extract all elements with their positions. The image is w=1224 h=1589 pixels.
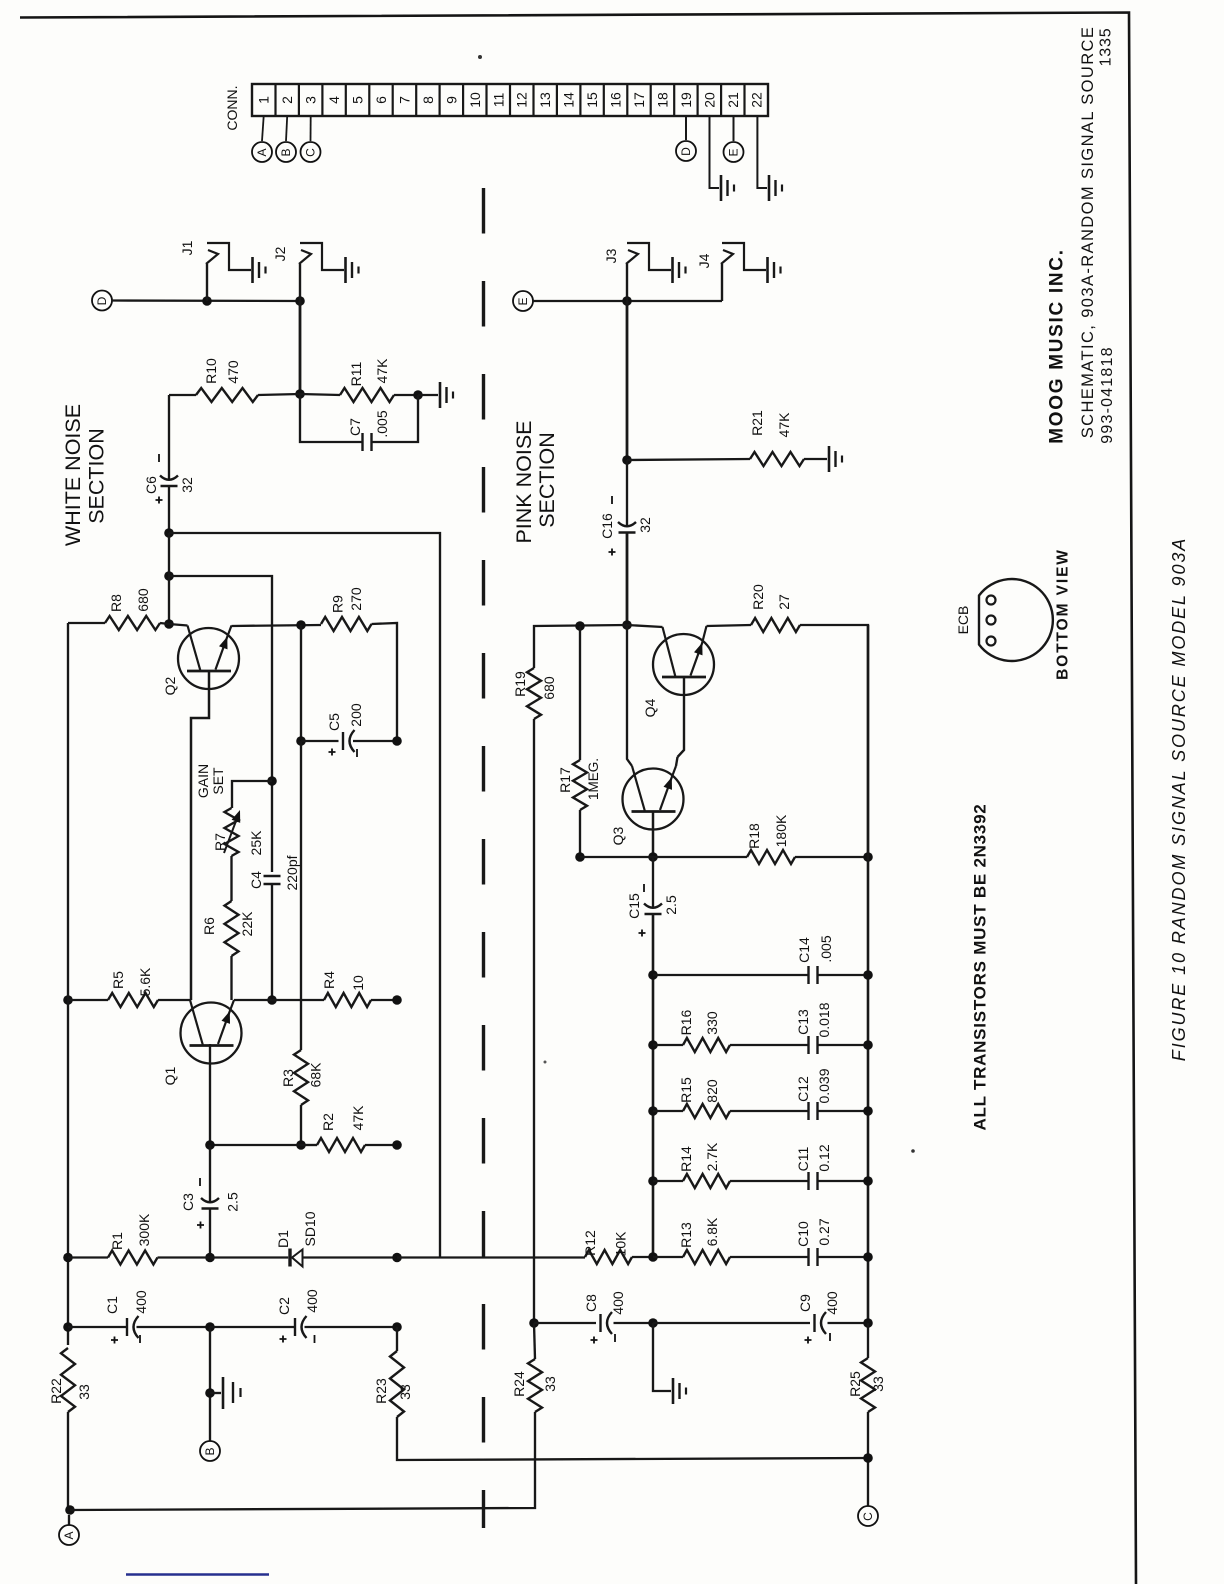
- svg-text:33: 33: [870, 1376, 886, 1392]
- svg-text:C: C: [304, 148, 318, 157]
- resistor R5 5.6K: [63, 995, 73, 1005]
- svg-text:C1: C1: [104, 1296, 120, 1314]
- svg-text:400: 400: [610, 1291, 626, 1315]
- ground on C8/C9 row: [653, 1323, 671, 1391]
- node A and bottom rail: [65, 1505, 75, 1515]
- svg-text:J2: J2: [272, 246, 288, 261]
- svg-text:10: 10: [467, 92, 483, 108]
- svg-text:33: 33: [397, 1384, 413, 1400]
- svg-text:C2: C2: [276, 1297, 292, 1315]
- svg-text:10K: 10K: [613, 1231, 629, 1257]
- svg-text:0.27: 0.27: [816, 1218, 832, 1245]
- wire Q4 base to Q3 emitter: [678, 677, 685, 757]
- svg-text:ALL TRANSISTORS MUST BE 2N3392: ALL TRANSISTORS MUST BE 2N3392: [971, 804, 990, 1131]
- stray specks: [478, 55, 482, 59]
- wire Q1 emitter row to R4: [234, 999, 324, 1001]
- resistor R19 680: [527, 668, 541, 719]
- svg-text:400: 400: [824, 1291, 840, 1315]
- feedback wire from C6 node to bottom rail: [169, 533, 440, 1258]
- resistor R8 680: [68, 622, 105, 624]
- svg-text:3: 3: [303, 96, 319, 104]
- svg-text:47K: 47K: [776, 412, 792, 438]
- svg-text:SET: SET: [210, 767, 226, 795]
- svg-text:33: 33: [542, 1376, 558, 1392]
- resistor R20 27: [707, 625, 752, 626]
- svg-text:GAIN: GAIN: [195, 764, 211, 798]
- svg-text:47K: 47K: [374, 358, 390, 384]
- supply row continues to pink section: [397, 1256, 585, 1258]
- svg-text:R7: R7: [212, 833, 228, 851]
- svg-text:13: 13: [537, 92, 553, 108]
- svg-text:J3: J3: [603, 248, 619, 263]
- svg-text:E: E: [727, 148, 741, 156]
- transistor Q4: [627, 625, 663, 627]
- svg-text:7: 7: [396, 96, 412, 104]
- ground after R11: [418, 394, 438, 396]
- resistor R21 47K: [627, 459, 750, 460]
- resistor R10 470: [169, 394, 196, 396]
- node E (pink noise output bus): [513, 291, 533, 311]
- svg-text:R16: R16: [678, 1009, 694, 1035]
- right rail of pink ladder: [867, 625, 870, 1323]
- resistor R16 330: [648, 1040, 658, 1050]
- capacitor C13 0.018: [807, 1036, 809, 1054]
- svg-text:MOOG MUSIC INC.: MOOG MUSIC INC.: [1047, 248, 1068, 443]
- svg-text:20: 20: [701, 92, 717, 108]
- resistor R6 22K: [230, 856, 232, 901]
- svg-text:C11: C11: [795, 1146, 811, 1171]
- svg-text:R13: R13: [678, 1222, 694, 1248]
- svg-text:CONN.: CONN.: [224, 85, 240, 130]
- resistor R13 6.8K: [653, 1256, 683, 1258]
- wire C6 node to gain-set branch: [164, 571, 174, 581]
- E bus down to R21 node: [626, 301, 629, 460]
- svg-text:R4: R4: [321, 971, 337, 989]
- resistor R23 33: [396, 1327, 398, 1351]
- svg-text:Q3: Q3: [610, 826, 626, 845]
- node B: [200, 1441, 220, 1461]
- capacitor C1 400 (electrolytic): [63, 1322, 73, 1332]
- svg-text:18: 18: [654, 92, 670, 108]
- capacitor C9 400 (electrolytic): [653, 1322, 810, 1324]
- svg-text:6: 6: [373, 96, 389, 104]
- connector terminal strip CONN 1-22: [252, 84, 768, 116]
- ground at pin 20: [710, 116, 720, 188]
- svg-text:Q4: Q4: [642, 698, 658, 717]
- svg-text:5.6K: 5.6K: [137, 967, 153, 996]
- transistor Q1: [190, 999, 191, 1002]
- svg-text:C9: C9: [797, 1294, 813, 1312]
- svg-text:15: 15: [584, 92, 600, 108]
- svg-text:R18: R18: [746, 823, 762, 849]
- svg-text:400: 400: [304, 1289, 320, 1313]
- svg-text:SECTION: SECTION: [85, 428, 109, 524]
- transistor bottom view diagram: [979, 579, 1053, 661]
- svg-text:4: 4: [326, 96, 342, 104]
- resistor R22 33: [61, 1348, 75, 1412]
- svg-text:9: 9: [443, 96, 459, 104]
- resistor R4 10: [324, 993, 371, 1007]
- svg-text:R14: R14: [678, 1146, 694, 1172]
- wire Q2 emitter to R9 node: [232, 625, 322, 626]
- resistor R24 33: [534, 1323, 535, 1359]
- svg-text:BOTTOM VIEW: BOTTOM VIEW: [1055, 548, 1072, 680]
- transistor Q2: [169, 624, 188, 626]
- svg-text:300K: 300K: [136, 1213, 152, 1246]
- svg-text:SECTION: SECTION: [535, 432, 559, 528]
- capacitor C5 200 (electrolytic): [301, 740, 339, 742]
- svg-text:J4: J4: [696, 253, 712, 268]
- svg-text:27: 27: [776, 594, 792, 610]
- svg-text:R12: R12: [582, 1230, 598, 1256]
- svg-text:470: 470: [225, 360, 241, 384]
- svg-text:R11: R11: [348, 361, 364, 386]
- svg-text:R9: R9: [330, 595, 346, 613]
- svg-text:E: E: [516, 297, 530, 305]
- svg-text:21: 21: [725, 92, 741, 108]
- svg-text:R20: R20: [750, 584, 766, 610]
- svg-text:ECB: ECB: [955, 606, 971, 635]
- svg-text:R1: R1: [109, 1232, 125, 1250]
- diode D1 SD10: [210, 1256, 288, 1258]
- pink supply node: [622, 620, 632, 630]
- svg-text:R2: R2: [320, 1113, 336, 1131]
- resistor R11 47K: [300, 394, 340, 395]
- svg-text:R8: R8: [108, 594, 124, 612]
- jack J4: [721, 264, 723, 301]
- svg-text:680: 680: [135, 588, 151, 612]
- svg-text:Q2: Q2: [162, 676, 178, 695]
- capacitor C8 400 (electrolytic): [529, 1318, 539, 1328]
- capacitor C11 0.12: [807, 1172, 809, 1190]
- svg-text:68K: 68K: [308, 1062, 324, 1088]
- svg-text:180K: 180K: [773, 814, 789, 847]
- svg-text:C16: C16: [599, 513, 615, 539]
- svg-text:.005: .005: [818, 935, 834, 962]
- ground on B branch: [209, 1327, 211, 1441]
- jack J1: [206, 264, 208, 301]
- capacitor C3 2.5 (electrolytic): [209, 1145, 211, 1203]
- svg-text:D: D: [679, 147, 693, 156]
- svg-text:32: 32: [637, 517, 653, 533]
- svg-text:270: 270: [348, 587, 364, 611]
- svg-text:C7: C7: [347, 418, 363, 436]
- svg-text:11: 11: [490, 93, 506, 108]
- svg-text:2.5: 2.5: [225, 1192, 241, 1212]
- resistor R2 47K: [301, 1144, 317, 1146]
- capacitor C12 0.039: [807, 1102, 809, 1120]
- resistor R25 33: [867, 1323, 869, 1358]
- terminal B at pin 2: [286, 116, 287, 141]
- resistor R3 68K: [294, 1050, 308, 1105]
- svg-text:D: D: [95, 296, 109, 305]
- dashed separator between white and pink sections: [482, 188, 485, 1528]
- terminal E at pin 21: [733, 116, 735, 141]
- jack J3: [626, 264, 628, 301]
- wire Q2-emitter rail down to R3: [300, 741, 302, 1050]
- svg-text:A: A: [62, 1531, 76, 1539]
- capacitor C7 .005: [300, 394, 363, 442]
- node D (white noise output bus): [92, 291, 112, 311]
- resistor R17 1MEG: [579, 626, 581, 760]
- svg-text:47K: 47K: [350, 1105, 366, 1131]
- svg-text:14: 14: [561, 92, 577, 108]
- node C6- to feedback line: [164, 528, 174, 538]
- svg-text:R5: R5: [110, 971, 126, 989]
- svg-text:C15: C15: [626, 893, 642, 919]
- svg-text:2.5: 2.5: [663, 895, 679, 915]
- svg-text:C10: C10: [795, 1221, 811, 1247]
- svg-text:C14: C14: [796, 937, 812, 963]
- svg-text:2: 2: [279, 96, 295, 104]
- ground at pin 22: [757, 116, 767, 188]
- svg-text:R23: R23: [373, 1378, 389, 1404]
- svg-text:1MEG.: 1MEG.: [586, 758, 601, 800]
- svg-text:R22: R22: [48, 1378, 64, 1404]
- svg-text:16: 16: [608, 92, 624, 108]
- svg-text:C12: C12: [795, 1076, 811, 1102]
- svg-text:D1: D1: [275, 1230, 291, 1248]
- terminal C at pin 3: [310, 116, 312, 141]
- capacitor C15 2.5 (electrolytic): [652, 857, 654, 908]
- svg-text:33: 33: [76, 1384, 92, 1400]
- capacitor C14 .005: [648, 970, 658, 980]
- svg-text:200: 200: [348, 703, 364, 727]
- svg-text:5: 5: [350, 96, 366, 104]
- svg-text:R3: R3: [280, 1069, 296, 1087]
- svg-text:22: 22: [748, 92, 764, 108]
- svg-text:SD10: SD10: [302, 1211, 318, 1246]
- svg-text:C6: C6: [143, 476, 159, 494]
- svg-text:WHITE NOISE: WHITE NOISE: [61, 404, 85, 546]
- svg-text:12: 12: [514, 92, 530, 108]
- svg-text:2.7K: 2.7K: [704, 1142, 720, 1171]
- terminal A at pin 1: [262, 116, 264, 141]
- svg-text:C8: C8: [583, 1294, 599, 1312]
- svg-text:1: 1: [256, 96, 272, 104]
- svg-text:R21: R21: [749, 410, 765, 436]
- svg-text:Q1: Q1: [162, 1066, 178, 1085]
- svg-text:R6: R6: [201, 917, 217, 935]
- capacitor C10 0.27: [807, 1248, 809, 1266]
- svg-text:17: 17: [631, 92, 647, 108]
- resistor R14 2.7K: [648, 1176, 658, 1186]
- wire C6 node down to Q2 collector: [168, 533, 170, 624]
- node gain set junction: [267, 776, 277, 786]
- svg-text:993-041818: 993-041818: [1099, 346, 1116, 443]
- svg-text:B: B: [279, 148, 293, 156]
- wire R9 node down to C5: [300, 625, 302, 741]
- svg-text:25K: 25K: [248, 830, 264, 856]
- svg-text:R19: R19: [512, 671, 528, 697]
- svg-text:R24: R24: [511, 1371, 527, 1397]
- capacitor C16 32 (electrolytic): [626, 460, 628, 527]
- svg-text:B: B: [203, 1447, 217, 1455]
- wire Q2 base down to Q1 collector: [191, 671, 209, 1000]
- potentiometer R7 25K gain set: [232, 781, 272, 808]
- svg-text:R25: R25: [847, 1371, 863, 1397]
- svg-text:22K: 22K: [239, 911, 255, 937]
- svg-text:J1: J1: [179, 240, 195, 255]
- svg-text:PINK NOISE: PINK NOISE: [512, 420, 536, 543]
- capacitor C4 220pf: [264, 875, 281, 877]
- svg-text:R10: R10: [203, 358, 219, 384]
- svg-text:8: 8: [420, 96, 436, 104]
- svg-text:C5: C5: [326, 713, 342, 731]
- svg-text:330: 330: [704, 1011, 720, 1035]
- svg-text:1335: 1335: [1098, 28, 1115, 67]
- svg-text:19: 19: [678, 92, 694, 108]
- jack J2: [299, 264, 301, 301]
- terminal D at pin 19: [685, 116, 687, 140]
- resistor R1 300K: [63, 1253, 73, 1263]
- resistor R12 10K: [585, 1250, 632, 1264]
- resistor R18 180K: [580, 856, 747, 858]
- blue pen mark: [126, 1573, 269, 1576]
- svg-text:R15: R15: [678, 1077, 694, 1103]
- svg-text:C4: C4: [248, 871, 264, 889]
- wire supply node to R19 and R17: [534, 625, 627, 668]
- svg-text:A: A: [255, 148, 269, 156]
- svg-text:820: 820: [704, 1079, 720, 1103]
- svg-text:SCHEMATIC, 903A-RANDOM SIGNAL: SCHEMATIC, 903A-RANDOM SIGNAL SOURCE: [1079, 26, 1097, 439]
- capacitor C6 32 (electrolytic): [168, 395, 170, 480]
- wire node E to jacks J3 J4: [533, 300, 722, 302]
- svg-text:400: 400: [133, 1290, 149, 1314]
- svg-text:C3: C3: [180, 1193, 196, 1211]
- node C: [863, 1453, 873, 1463]
- svg-text:680: 680: [541, 676, 557, 700]
- capacitor C2 400 (electrolytic): [210, 1326, 295, 1328]
- svg-text:0.039: 0.039: [816, 1068, 832, 1103]
- svg-text:6.8K: 6.8K: [704, 1217, 720, 1246]
- transistor Q3: [627, 625, 632, 766]
- wire J2 bus down to R10/R11 node: [299, 301, 302, 394]
- svg-text:R17: R17: [557, 767, 573, 793]
- resistor R15 820: [648, 1106, 658, 1116]
- svg-text:32: 32: [179, 477, 195, 493]
- svg-text:10: 10: [350, 975, 366, 991]
- left supply rail: [67, 623, 69, 1345]
- wire node D to jacks J1 J2: [112, 299, 300, 302]
- resistor R9 270: [321, 617, 372, 631]
- svg-text:C13: C13: [795, 1009, 811, 1035]
- svg-text:0.018: 0.018: [816, 1002, 832, 1037]
- svg-text:FIGURE 10 RANDOM SIGNAL SOURCE: FIGURE 10 RANDOM SIGNAL SOURCE MODEL 903…: [1169, 537, 1189, 1061]
- wire Q1 base to R3/R2 node: [210, 1044, 301, 1145]
- svg-text:C: C: [861, 1512, 875, 1521]
- wire Q3 base to R18 row: [652, 812, 655, 858]
- svg-text:.005: .005: [374, 410, 390, 437]
- svg-text:0.12: 0.12: [816, 1144, 832, 1171]
- svg-text:220pf: 220pf: [284, 855, 300, 890]
